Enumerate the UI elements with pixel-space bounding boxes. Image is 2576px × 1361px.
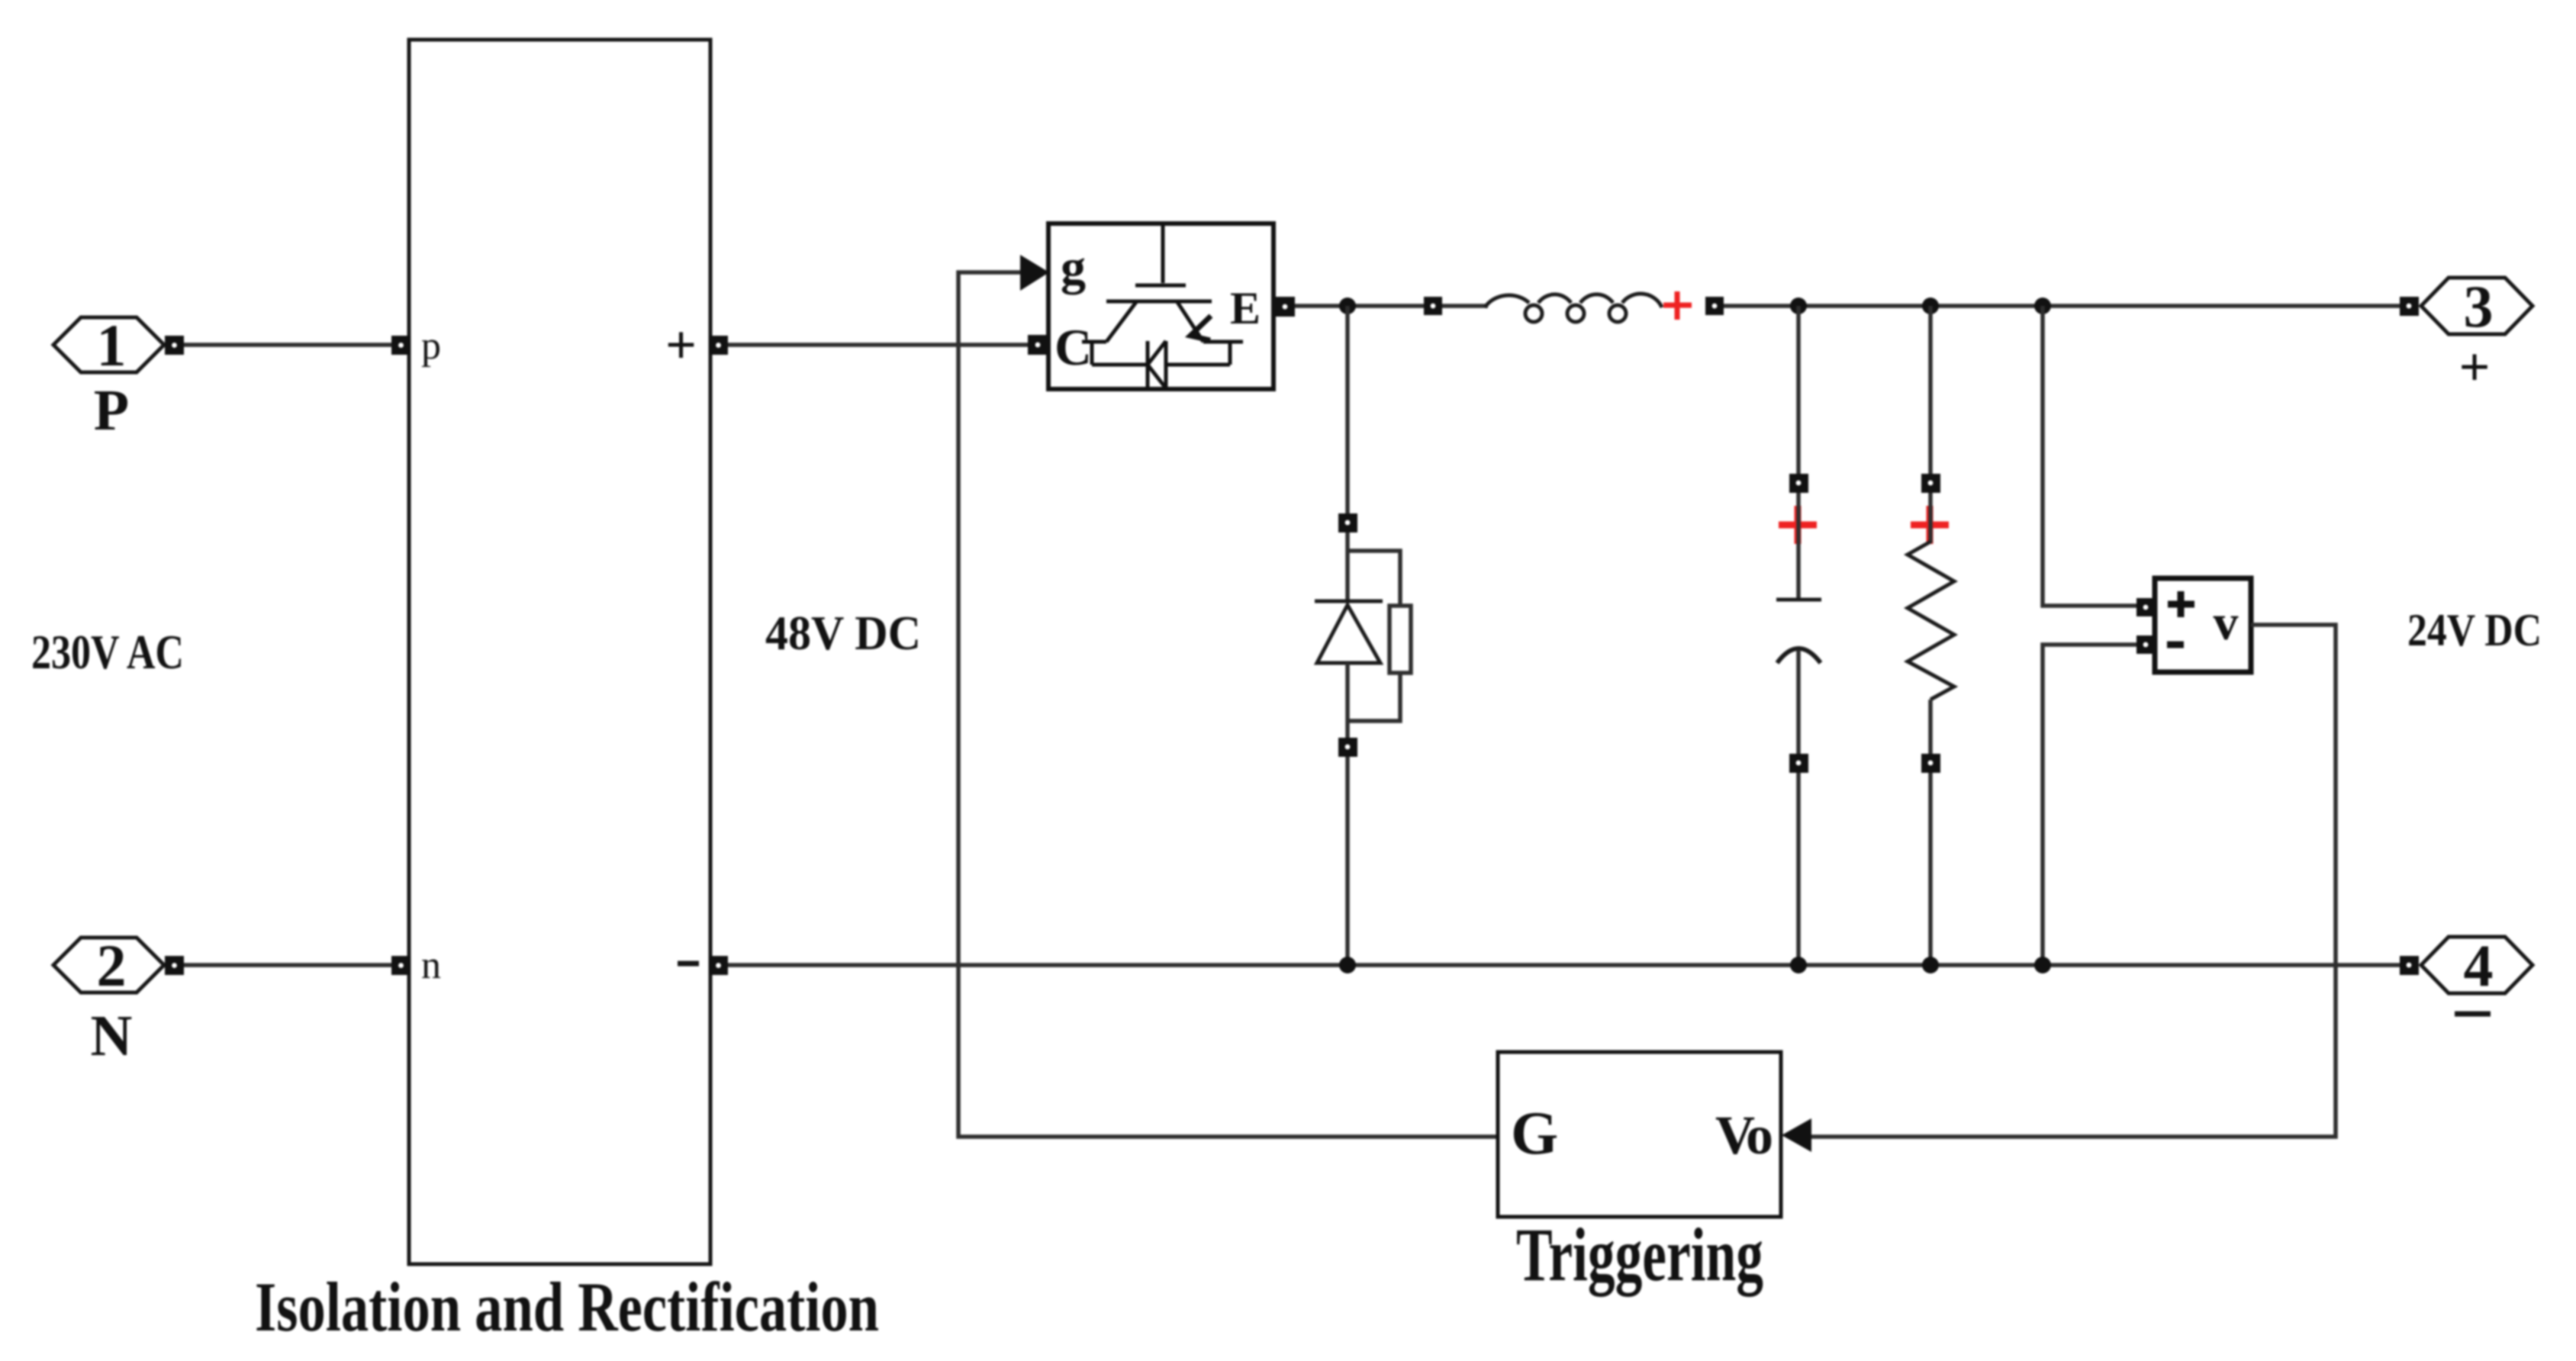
wire voltmeter - branch bbox=[2043, 645, 2137, 965]
svg-text:+: + bbox=[2458, 336, 2490, 397]
IGBT C pin square bbox=[1028, 335, 1048, 355]
wire capacitor bottom lead bbox=[1796, 650, 1801, 754]
wire diode anode down bbox=[1345, 663, 1350, 738]
IGBT E pin square bbox=[1275, 297, 1295, 317]
resistor polarity mark + bbox=[1911, 506, 1949, 544]
wire resistor branch upper bbox=[1928, 306, 1933, 475]
port 2 hexagon bbox=[53, 932, 164, 999]
pin + square bbox=[709, 336, 728, 355]
triggering block U3 bbox=[1498, 1052, 1781, 1217]
svg-text:C: C bbox=[1055, 318, 1092, 376]
IGBT U2 block bbox=[1048, 224, 1274, 389]
svg-text:24V DC: 24V DC bbox=[2407, 605, 2542, 655]
wire diode branch upper bbox=[1345, 306, 1350, 514]
svg-text:Vo: Vo bbox=[1715, 1105, 1773, 1166]
snubber resistor branch bbox=[1348, 551, 1411, 721]
wire inductor left lead bbox=[1442, 304, 1488, 308]
wire capacitor top lead bbox=[1796, 493, 1801, 598]
wire diode branch lower bbox=[1345, 757, 1350, 965]
voltmeter V1 block bbox=[2155, 578, 2251, 672]
node bottom junctions bbox=[1339, 957, 1356, 973]
svg-text:230V AC: 230V AC bbox=[31, 626, 184, 679]
port 2 connector square bbox=[165, 956, 184, 975]
port 3 hexagon bbox=[2421, 273, 2533, 339]
diode D1 symbol bbox=[1315, 601, 1383, 663]
wire + pin to IGBT C bbox=[728, 343, 1028, 347]
svg-text:G: G bbox=[1511, 1100, 1558, 1167]
pin p square bbox=[391, 336, 411, 355]
port 1 hexagon bbox=[53, 312, 164, 378]
wire resistor branch lower bbox=[1928, 773, 1933, 965]
svg-text:N: N bbox=[91, 1004, 133, 1068]
capacitor polarity mark + bbox=[1779, 506, 1817, 544]
wire diode top to cathode bbox=[1345, 532, 1350, 600]
svg-text:4: 4 bbox=[2464, 932, 2494, 999]
inductor L1 coil bbox=[1485, 294, 1662, 322]
wire E to inductor bbox=[1295, 304, 1424, 308]
wire inductor to output node bbox=[1724, 304, 2400, 308]
wire resistor bottom lead bbox=[1928, 700, 1933, 754]
voltmeter + pin square bbox=[2136, 598, 2155, 616]
wire resistor top lead bbox=[1928, 493, 1933, 543]
wire voltmeter + branch bbox=[2043, 306, 2137, 606]
svg-text:2: 2 bbox=[97, 932, 127, 999]
svg-text:v: v bbox=[2214, 595, 2239, 651]
pin - square bbox=[709, 956, 728, 975]
wire capacitor branch lower bbox=[1796, 773, 1801, 965]
port 4 polarity label - bbox=[2455, 1012, 2491, 1017]
capacitor C1 plates bbox=[1776, 600, 1821, 663]
svg-text:3: 3 bbox=[2464, 273, 2494, 339]
inductor polarity mark + bbox=[1663, 291, 1692, 320]
resistor R1 bottom pin square bbox=[1921, 754, 1940, 773]
wire bottom bus n bbox=[728, 963, 2400, 967]
inductor L1 left pin square bbox=[1424, 297, 1442, 315]
resistor R1 top pin square bbox=[1921, 474, 1940, 493]
triggering Vo input arrow bbox=[1782, 1118, 1811, 1152]
wire gate feedback vertical bbox=[958, 272, 1496, 1137]
port 4 connector square bbox=[2400, 956, 2419, 975]
svg-text:+: + bbox=[665, 314, 697, 375]
node output top junctions bbox=[1790, 298, 1807, 314]
svg-text:48V DC: 48V DC bbox=[765, 606, 921, 660]
capacitor C1 bottom pin square bbox=[1789, 754, 1808, 773]
svg-text:g: g bbox=[1061, 240, 1086, 295]
pin n square bbox=[391, 956, 411, 975]
svg-text:Triggering: Triggering bbox=[1516, 1212, 1763, 1297]
diode D1 top pin square bbox=[1338, 513, 1357, 532]
wire voltmeter output to Vo bbox=[1811, 625, 2336, 1137]
diode D1 bottom pin square bbox=[1338, 738, 1357, 757]
IGBT gate input arrow bbox=[1020, 255, 1049, 291]
wire port1 to p pin bbox=[184, 343, 392, 347]
svg-text:p: p bbox=[421, 324, 441, 368]
IGBT icon bbox=[1082, 226, 1243, 388]
node switch junction bbox=[1339, 298, 1356, 314]
svg-text:1: 1 bbox=[97, 312, 127, 378]
voltmeter - pin square bbox=[2136, 635, 2155, 654]
wire capacitor branch upper bbox=[1796, 306, 1801, 475]
port 4 hexagon bbox=[2421, 932, 2533, 999]
transformer-rectifier block U1 Isolation and Rectification bbox=[409, 40, 710, 1264]
svg-text:P: P bbox=[94, 378, 129, 442]
svg-text:E: E bbox=[1230, 283, 1261, 333]
svg-text:Isolation and Rectification: Isolation and Rectification bbox=[255, 1268, 879, 1346]
capacitor C1 top pin square bbox=[1789, 474, 1808, 493]
inductor L1 right pin square bbox=[1705, 297, 1724, 315]
wire port2 to n pin bbox=[184, 963, 392, 967]
port 3 connector square bbox=[2400, 297, 2419, 316]
resistor R1 zigzag bbox=[1908, 542, 1954, 700]
port 1 connector square bbox=[165, 336, 184, 355]
svg-text:n: n bbox=[421, 944, 441, 987]
